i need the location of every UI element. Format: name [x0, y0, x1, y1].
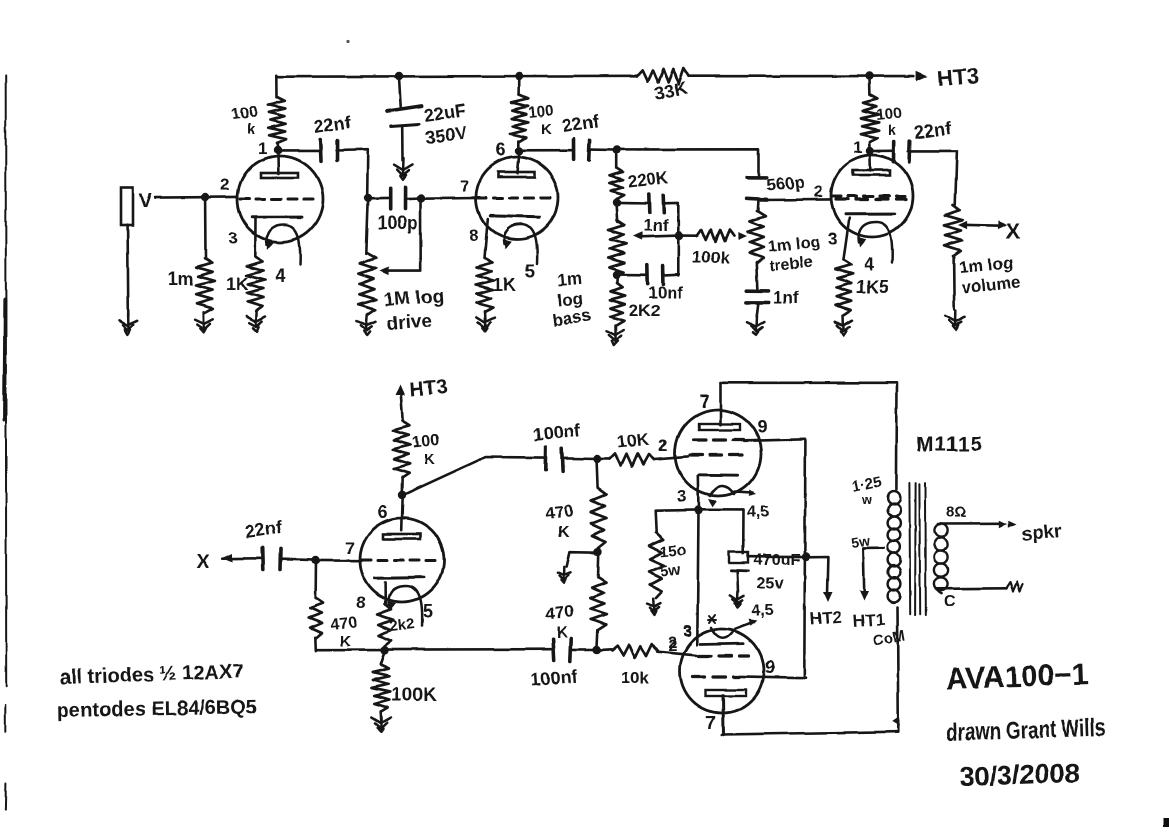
- svg-text:2K2: 2K2: [629, 301, 660, 320]
- svg-text:1M log: 1M log: [383, 286, 444, 311]
- svg-text:K: K: [340, 633, 351, 650]
- svg-text:HT2: HT2: [809, 608, 842, 629]
- svg-text:22nf: 22nf: [561, 111, 601, 136]
- svg-text:2: 2: [814, 184, 823, 201]
- svg-text:30/3/2008: 30/3/2008: [959, 758, 1080, 792]
- svg-text:3: 3: [677, 487, 686, 506]
- svg-text:all triodes ½ 12AX7: all triodes ½ 12AX7: [59, 661, 243, 689]
- svg-text:1: 1: [853, 138, 862, 157]
- svg-text:6: 6: [378, 502, 388, 522]
- svg-text:1m log: 1m log: [768, 234, 821, 256]
- svg-text:8Ω: 8Ω: [946, 504, 966, 521]
- svg-text:1K: 1K: [493, 275, 516, 295]
- svg-text:drive: drive: [386, 311, 433, 335]
- svg-text:10nf: 10nf: [648, 283, 683, 302]
- svg-text:560p: 560p: [766, 173, 806, 195]
- svg-text:7: 7: [700, 392, 710, 412]
- svg-text:w: w: [861, 492, 873, 507]
- svg-text:K: K: [558, 524, 570, 541]
- svg-text:100p: 100p: [377, 213, 418, 233]
- svg-text:7: 7: [706, 713, 716, 733]
- svg-text:5: 5: [525, 261, 535, 281]
- svg-text:X: X: [1006, 220, 1020, 243]
- svg-text:drawn Grant Wills: drawn Grant Wills: [945, 713, 1106, 747]
- svg-text:2: 2: [220, 175, 229, 194]
- svg-text:M1115: M1115: [916, 433, 983, 456]
- svg-text:2: 2: [668, 638, 677, 655]
- svg-text:22nf: 22nf: [313, 112, 353, 137]
- svg-text:25v: 25v: [757, 575, 784, 592]
- svg-text:6: 6: [495, 140, 505, 160]
- svg-text:15o: 15o: [660, 541, 687, 561]
- svg-text:CoM: CoM: [872, 628, 907, 650]
- svg-text:4: 4: [864, 254, 874, 274]
- svg-text:22nf: 22nf: [913, 118, 953, 143]
- svg-text:2k2: 2k2: [389, 615, 416, 635]
- svg-text:1m: 1m: [557, 269, 583, 290]
- svg-text:100nf: 100nf: [530, 667, 579, 690]
- svg-text:V: V: [139, 191, 152, 212]
- svg-text:10K: 10K: [616, 430, 650, 452]
- svg-text:5: 5: [423, 601, 433, 621]
- svg-text:5w: 5w: [850, 533, 871, 551]
- svg-text:pentodes EL84/6BQ5: pentodes EL84/6BQ5: [57, 697, 257, 722]
- svg-text:4,5: 4,5: [747, 504, 769, 521]
- svg-text:470: 470: [544, 601, 574, 623]
- svg-text:1K5: 1K5: [856, 277, 889, 297]
- svg-text:K: K: [424, 451, 435, 468]
- svg-text:AVA100−1: AVA100−1: [945, 658, 1089, 696]
- svg-text:5w: 5w: [660, 561, 682, 580]
- svg-text:treble: treble: [769, 254, 814, 275]
- svg-text:8: 8: [356, 593, 365, 612]
- svg-text:7: 7: [460, 177, 469, 196]
- svg-text:1nf: 1nf: [773, 288, 799, 307]
- svg-text:100: 100: [528, 102, 555, 122]
- svg-text:470: 470: [544, 501, 574, 523]
- svg-text:7: 7: [345, 539, 354, 558]
- svg-text:3: 3: [828, 229, 837, 248]
- svg-text:470uF: 470uF: [754, 552, 800, 569]
- svg-text:4: 4: [275, 266, 285, 286]
- svg-text:220K: 220K: [626, 168, 669, 191]
- svg-text:100: 100: [412, 432, 440, 452]
- svg-text:3: 3: [228, 229, 237, 248]
- svg-text:1: 1: [258, 139, 267, 158]
- svg-text:8: 8: [469, 226, 478, 245]
- svg-text:K: K: [541, 121, 552, 138]
- svg-text:100K: 100K: [391, 685, 437, 706]
- svg-text:HT3: HT3: [937, 63, 980, 91]
- svg-text:1K: 1K: [226, 274, 249, 294]
- svg-text:HT3: HT3: [409, 376, 448, 401]
- svg-text:470: 470: [330, 614, 358, 634]
- svg-text:4,5: 4,5: [751, 602, 773, 619]
- svg-text:HT1: HT1: [852, 610, 885, 631]
- svg-text:9: 9: [765, 657, 775, 677]
- svg-text:k: k: [247, 121, 256, 138]
- svg-text:1nf: 1nf: [643, 216, 669, 235]
- svg-text:C: C: [944, 593, 956, 610]
- svg-text:100k: 100k: [692, 248, 730, 267]
- svg-text:X: X: [196, 551, 210, 573]
- svg-text:9: 9: [757, 417, 767, 437]
- svg-text:100nf: 100nf: [532, 420, 582, 445]
- svg-text:22nf: 22nf: [244, 517, 284, 542]
- svg-text:10k: 10k: [621, 668, 650, 687]
- svg-text:volume: volume: [961, 273, 1022, 297]
- svg-text:k: k: [888, 122, 896, 138]
- svg-text:1m: 1m: [168, 269, 194, 289]
- svg-text:3: 3: [683, 623, 692, 640]
- svg-text:spkr: spkr: [1020, 521, 1063, 546]
- svg-text:K: K: [556, 624, 568, 641]
- svg-text:2: 2: [659, 438, 668, 455]
- svg-text:350V: 350V: [424, 122, 468, 148]
- svg-text:bass: bass: [551, 306, 592, 330]
